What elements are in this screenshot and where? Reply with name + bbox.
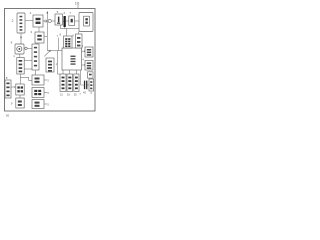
wire I to J (19, 95, 21, 98)
enclosure border (system outline) (5, 9, 96, 112)
wire U3 to filter bar (63, 20, 64, 22)
arrow P to S (82, 50, 85, 52)
wire P to crystal (81, 70, 84, 85)
wire U2 down to B2 (38, 27, 40, 32)
wire U1 to U2 (25, 20, 33, 22)
box K2 (32, 88, 44, 98)
diagonal arrow near N (44, 51, 49, 56)
wire G to M lower (24, 68, 32, 70)
box U4 (small coupler) (69, 16, 75, 26)
filter bar (solid) (64, 16, 66, 27)
wire M down to K1 (35, 70, 37, 75)
wire K1 right (44, 79, 47, 81)
arrow P to T (82, 64, 85, 66)
wire K3 right (44, 103, 47, 105)
node 10 leader line (77, 5, 79, 9)
box H (left edge tall) (5, 80, 11, 98)
wire crystal to V (87, 84, 89, 86)
box V (89, 79, 94, 91)
box P (main controller) (62, 48, 82, 70)
wire bar stub (64, 27, 66, 29)
wire bus to U9 (67, 28, 80, 30)
box U5 inner (84, 16, 90, 26)
wire G to M upper (24, 60, 32, 62)
wires P down to W row (62, 70, 64, 74)
box Q (dense memory block) (64, 36, 73, 48)
box G (tall left block) (17, 58, 24, 75)
wire U1 down to U6 (20, 33, 22, 44)
wire bar to U4 (66, 20, 69, 22)
box W1 (60, 74, 66, 92)
box N (46, 58, 54, 72)
box B2 (below U2) (35, 32, 44, 43)
wire B2 right (44, 36, 47, 38)
box W3 (74, 74, 79, 92)
box K3 (32, 100, 44, 109)
wire vertical x58 (57, 38, 59, 51)
svg-text:30: 30 (6, 114, 10, 118)
box T (85, 61, 93, 71)
wire K2 right (44, 92, 47, 94)
box M (tall center block) (32, 44, 39, 70)
antenna feed line (46, 13, 48, 51)
box U3 (amplifier) (55, 14, 63, 25)
box U5 outer (transceiver) (79, 13, 93, 32)
box U6 (oscillator with circle glyph) (15, 44, 24, 54)
junction circle right of U6 (25, 47, 27, 49)
wire U2 to mixer (43, 20, 45, 22)
junction circle small (45, 20, 47, 22)
wire U5 down to U9 (78, 32, 80, 35)
wire G down to I (19, 74, 21, 84)
box S (85, 47, 93, 57)
wire U4 to U5 (75, 20, 80, 22)
wire U6 to U7 (27, 47, 32, 49)
box I (grid block) (16, 84, 24, 95)
arrowhead down (20, 37, 22, 39)
arrow H to I (11, 86, 14, 88)
wire corner to W1 (57, 51, 60, 74)
antenna arrowhead (46, 11, 48, 13)
crystal Y1 bars (84, 81, 85, 90)
svg-text:10: 10 (75, 1, 80, 6)
wire branch to K1 (20, 77, 32, 80)
box R (76, 34, 83, 48)
box J (16, 98, 24, 108)
box U2 (modulator block) (33, 15, 43, 27)
box U1 (top-left block) (17, 13, 25, 33)
wire U6 to G (19, 54, 21, 58)
wire into P left (47, 50, 62, 52)
box U (small right) (88, 72, 94, 78)
box W2 (67, 74, 73, 92)
wire mixer to U3 (51, 20, 55, 22)
wire row1 down bus (61, 25, 67, 36)
mixer circle (48, 19, 51, 22)
box K1 (32, 75, 44, 85)
svg-text:2: 2 (12, 19, 14, 23)
